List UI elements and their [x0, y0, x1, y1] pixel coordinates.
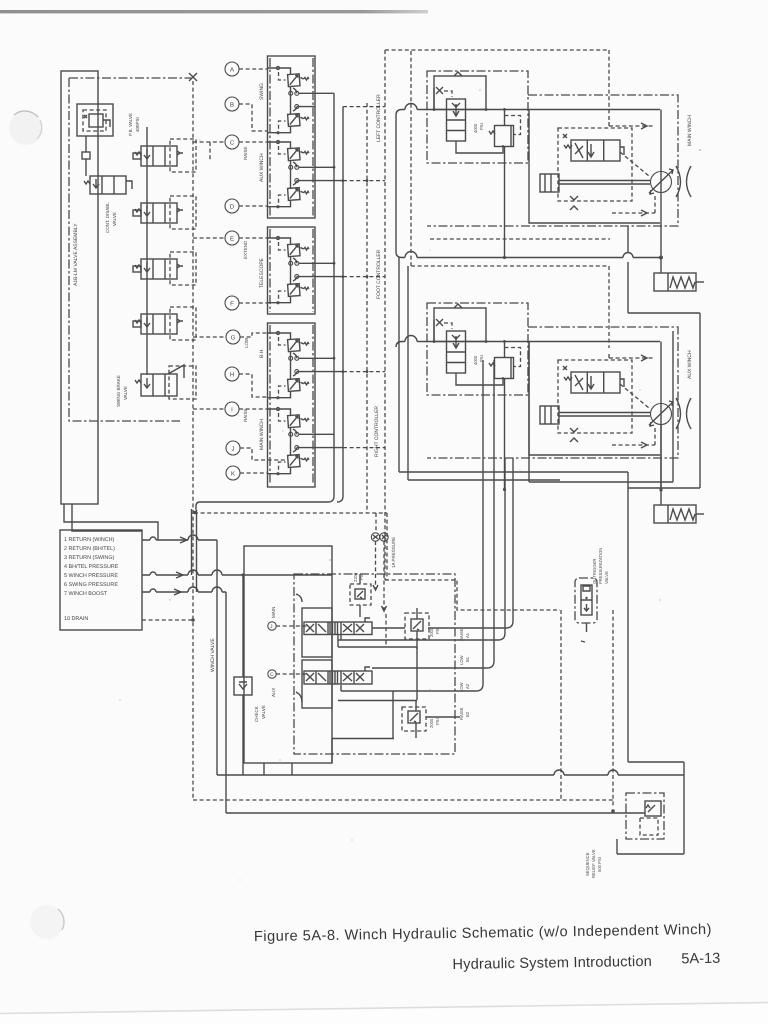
svg-text:1 RETURN (WINCH): 1 RETURN (WINCH): [64, 537, 115, 543]
svg-text:AUX WINCH: AUX WINCH: [687, 350, 693, 379]
svg-text:E: E: [230, 236, 234, 243]
svg-text:2200: 2200: [353, 572, 358, 582]
svg-text:7 WINCH BOOST: 7 WINCH BOOST: [64, 591, 108, 597]
svg-text:Hydraulic System Introduction: Hydraulic System Introduction: [452, 954, 652, 973]
svg-text:LEFT CONTROLLER: LEFT CONTROLLER: [376, 94, 382, 142]
svg-text:LOW: LOW: [459, 655, 464, 665]
svg-text:PSI: PSI: [435, 718, 440, 725]
svg-text:J: J: [232, 446, 235, 453]
svg-text:6 SWING PRESSURE: 6 SWING PRESSURE: [64, 582, 118, 588]
svg-text:RAISE: RAISE: [243, 146, 248, 160]
svg-text:A: A: [230, 67, 234, 74]
svg-text:5 WINCH PRESSURE: 5 WINCH PRESSURE: [64, 573, 118, 579]
svg-text:RAISE: RAISE: [459, 628, 464, 641]
svg-text:VALVE: VALVE: [112, 212, 117, 226]
svg-text:EXTEND: EXTEND: [243, 240, 248, 259]
svg-text:500 PSI: 500 PSI: [597, 857, 602, 872]
svg-text:A2: A2: [465, 683, 470, 689]
svg-text:CONT. DISABL: CONT. DISABL: [105, 202, 110, 233]
svg-text:3 RETURN (SWING): 3 RETURN (SWING): [64, 555, 115, 561]
svg-text:TELESCOPE: TELESCOPE: [259, 257, 265, 288]
svg-text:AUX WINCH: AUX WINCH: [259, 153, 265, 182]
svg-text:MAIN WINCH: MAIN WINCH: [259, 419, 265, 450]
svg-text:A1B-LM VALVE ASSEMBLY: A1B-LM VALVE ASSEMBLY: [73, 223, 79, 286]
svg-text:PSI: PSI: [479, 123, 484, 130]
svg-text:MAIN: MAIN: [271, 607, 276, 618]
svg-text:400PSI: 400PSI: [135, 117, 140, 132]
svg-text:VALVE: VALVE: [261, 705, 266, 719]
svg-text:G: G: [231, 335, 236, 342]
svg-text:B.H.: B.H.: [259, 348, 265, 358]
svg-text:FOOT CONTROLLER: FOOT CONTROLLER: [376, 249, 382, 299]
svg-text:CHECK: CHECK: [254, 706, 259, 722]
svg-text:AUX: AUX: [271, 688, 276, 697]
svg-text:B: B: [230, 102, 234, 109]
svg-text:WINCH VALVE: WINCH VALVE: [210, 638, 216, 672]
svg-text:D: D: [230, 204, 235, 211]
svg-text:SWING BRAKE: SWING BRAKE: [116, 375, 121, 407]
svg-text:B2: B2: [465, 711, 470, 717]
svg-text:K: K: [231, 471, 235, 478]
svg-text:RAISE: RAISE: [459, 707, 464, 720]
svg-text:OUTRIGGER: OUTRIGGER: [592, 559, 597, 584]
svg-text:10 DRAIN: 10 DRAIN: [64, 616, 88, 622]
svg-text:SWING: SWING: [259, 83, 265, 100]
svg-text:C: C: [270, 672, 274, 678]
svg-text:MAIN WINCH: MAIN WINCH: [687, 115, 693, 146]
svg-text:2 RETURN (BH/TEL): 2 RETURN (BH/TEL): [64, 546, 115, 552]
svg-text:H: H: [230, 372, 234, 379]
svg-text:P.B. VALVE: P.B. VALVE: [128, 113, 133, 136]
svg-text:LOW: LOW: [244, 337, 249, 348]
svg-text:2000: 2000: [429, 718, 434, 728]
svg-text:RIGHT CONTROLLER: RIGHT CONTROLLER: [374, 406, 380, 457]
svg-text:RELIEF VALVE: RELIEF VALVE: [591, 849, 596, 878]
svg-text:VALVE: VALVE: [123, 386, 128, 400]
svg-text:C: C: [230, 140, 235, 147]
svg-text:VALVE: VALVE: [604, 571, 609, 584]
svg-text:B1: B1: [465, 656, 470, 662]
svg-text:4 BH/TEL PRESSURE: 4 BH/TEL PRESSURE: [64, 564, 119, 570]
svg-text:SEQUENCE: SEQUENCE: [585, 852, 590, 876]
svg-text:PRESSURIZATION: PRESSURIZATION: [598, 548, 603, 584]
svg-text:A1: A1: [465, 632, 470, 638]
svg-text:5A-13: 5A-13: [681, 951, 720, 968]
svg-text:4000: 4000: [473, 123, 478, 133]
svg-text:F: F: [230, 301, 234, 308]
svg-text:RAISE: RAISE: [243, 408, 248, 422]
svg-text:1A PRESSURE: 1A PRESSURE: [391, 537, 396, 568]
